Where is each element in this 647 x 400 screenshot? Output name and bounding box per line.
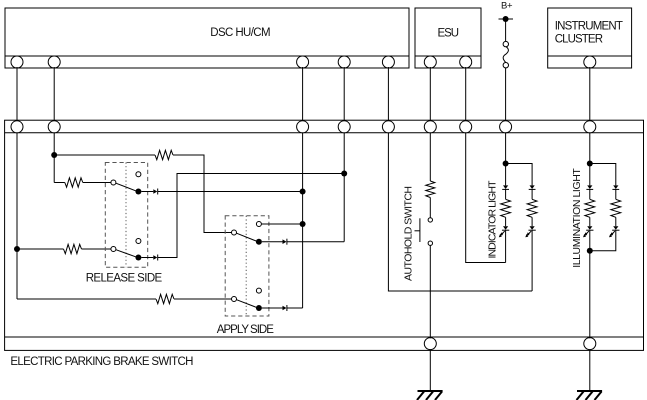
wire DSC pin4 to switch unit	[343, 67, 345, 121]
diode D1	[153, 189, 157, 194]
diode D7 illumination left	[587, 185, 592, 189]
LED3 illumination left	[587, 226, 592, 230]
wire R5 to autohold switch	[429, 198, 431, 218]
svg-text:CLUSTER: CLUSTER	[555, 34, 603, 46]
ESU pins	[424, 56, 471, 68]
wire LED3 to ground pin	[589, 230, 591, 338]
node G junction	[587, 161, 593, 167]
resistor R3 apply top feed	[155, 150, 173, 159]
wire SW3 output	[262, 241, 283, 243]
LED2 indicator right	[530, 226, 535, 230]
wire D7 to R8	[589, 189, 591, 199]
wire DSC pin2 to switch unit	[53, 67, 55, 121]
release side dashed box	[105, 163, 147, 268]
wire resistor R2 to release bottom pivot	[82, 248, 112, 250]
wire D4 to riser C	[287, 307, 303, 309]
ground G1	[418, 390, 443, 392]
node D junction	[341, 171, 347, 177]
resistor R6 indicator left	[501, 199, 511, 217]
resistor R8 illumination left	[585, 199, 595, 217]
switch SW4 apply bottom	[232, 297, 237, 302]
LED1 indicator left	[503, 226, 508, 230]
node A junction	[14, 246, 20, 252]
wire DSC pin3 to switch unit	[302, 67, 304, 121]
wire R6 to LED1	[505, 217, 507, 226]
resistor R1 release top	[65, 178, 83, 187]
wire B+ to fuse	[505, 19, 507, 41]
node B+ junction dot	[503, 16, 509, 22]
wire node A to resistor R2	[17, 248, 64, 250]
wire DSC pin5 to switch unit	[387, 67, 389, 121]
ground G2	[577, 390, 602, 392]
diode D6 indicator right	[530, 185, 535, 189]
LED4 illumination right	[613, 226, 618, 230]
svg-text:RELEASE SIDE: RELEASE SIDE	[86, 273, 163, 285]
wire riser D	[343, 133, 345, 242]
switch unit bottom pins	[424, 338, 596, 350]
wire SW4 output	[262, 307, 283, 309]
wire ESU pin2 to switch unit	[465, 67, 467, 121]
diode D3	[283, 239, 287, 244]
node F junction	[503, 161, 509, 167]
switch unit top pins	[11, 121, 596, 133]
switch SW2 release bottom	[111, 247, 116, 252]
switch SW3 apply top	[232, 230, 237, 235]
svg-text:ESU: ESU	[438, 28, 460, 40]
wire autohold pin to ground	[429, 349, 431, 390]
wire DSC pin1 to switch unit	[16, 67, 18, 121]
wire LED2 to return	[531, 230, 533, 291]
wire SW1 output	[141, 191, 153, 193]
release side dotted link	[125, 163, 127, 268]
svg-text:AUTOHOLD SWITCH: AUTOHOLD SWITCH	[403, 186, 415, 281]
wire apply bottom feed	[17, 298, 156, 300]
wire resistor R4 to apply bottom pivot	[174, 298, 232, 300]
box U1 DSC HU/CM	[5, 8, 409, 68]
wire resistor R3 to apply top pivot	[173, 155, 232, 233]
apply side dotted link	[245, 216, 247, 316]
fuse F1	[503, 41, 508, 46]
svg-text:DSC HU/CM: DSC HU/CM	[210, 27, 270, 39]
wire indicator return to DSC	[388, 133, 532, 292]
wire feed B vertical	[53, 133, 55, 183]
INSTRUMENT CLUSTER pin	[584, 56, 596, 68]
wire node F to indicator right branch	[506, 164, 532, 186]
wire fuse to switch unit	[505, 68, 507, 121]
wire LED1 to return	[505, 230, 507, 262]
wire illumination feed	[589, 133, 591, 186]
wire SW3 NO contact to node E	[261, 223, 302, 225]
apply side dashed box	[225, 216, 269, 316]
wire autohold feed	[429, 133, 431, 182]
node H junction	[587, 248, 593, 254]
box U2 ESU	[415, 8, 481, 68]
diode D4	[283, 306, 287, 311]
wire R7 to LED2	[531, 217, 533, 226]
wire resistor R1 to release top pivot	[83, 182, 111, 184]
wire cluster pin to switch unit	[589, 67, 591, 121]
svg-text:ELECTRIC PARKING BRAKE SWITCH: ELECTRIC PARKING BRAKE SWITCH	[10, 356, 193, 368]
wire D3 to riser D	[287, 241, 344, 243]
switch SW1 release top	[111, 180, 116, 185]
wire ESU pin1 to switch unit	[429, 67, 431, 121]
svg-text:INSTRUMENT: INSTRUMENT	[555, 21, 623, 33]
enclosure ELECTRIC PARKING BRAKE SWITCH	[5, 120, 644, 350]
wire illumination pin to ground	[589, 349, 591, 390]
node C junction	[300, 189, 306, 195]
wire node B to resistor R3	[54, 154, 155, 156]
svg-text:APPLY SIDE: APPLY SIDE	[217, 324, 274, 336]
wire R9 to LED4	[615, 217, 617, 226]
wire B+ bus stub	[499, 18, 514, 20]
wire D6 to R7	[531, 189, 533, 199]
resistor R7 indicator right	[527, 199, 537, 217]
svg-text:ILLUMINATION LIGHT: ILLUMINATION LIGHT	[571, 168, 583, 268]
wire D1 to node C	[158, 191, 303, 193]
resistor R2 release bottom	[64, 244, 82, 253]
wire riser C	[302, 133, 304, 309]
wire D5 to R6	[505, 189, 507, 199]
svg-text:INDICATOR LIGHT: INDICATOR LIGHT	[487, 180, 499, 259]
box U3 INSTRUMENT CLUSTER	[548, 8, 632, 68]
wire LED4 to node H	[590, 230, 616, 251]
wire B+ feed into lamps	[505, 133, 507, 186]
diode D5 indicator left	[503, 185, 508, 189]
wire autohold to ground pin	[429, 245, 431, 338]
resistor R4 apply bottom	[156, 294, 174, 303]
wire D2 to node D	[158, 174, 345, 258]
wire node B to resistor R1	[54, 182, 65, 184]
wire indicator return to ESU	[466, 133, 506, 263]
diode D8 illumination right	[613, 185, 618, 189]
wire node G to illumination right branch	[590, 164, 616, 186]
switch SW5 autohold push button	[428, 218, 432, 222]
DSC HU/CM pins	[11, 56, 394, 68]
wire SW2 output	[141, 257, 153, 259]
wire R8 to LED3	[589, 217, 591, 226]
svg-text:B+: B+	[501, 1, 513, 12]
resistor R9 illumination right	[611, 199, 621, 217]
resistor R5 autohold	[426, 181, 435, 198]
wire feed A vertical	[16, 133, 18, 300]
node B junction	[51, 152, 57, 158]
wire D8 to R9	[615, 189, 617, 199]
node E junction	[300, 221, 306, 227]
diode D2	[153, 255, 157, 260]
